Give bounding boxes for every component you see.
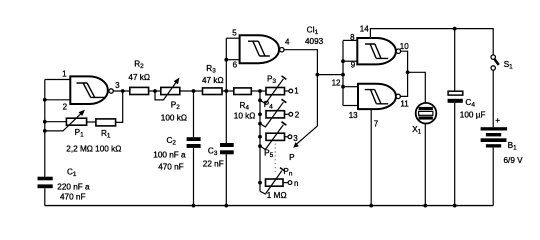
svg-text:4093: 4093: [305, 37, 324, 46]
wire pin14 stub and top rail: [370, 29, 493, 55]
label R3: [206, 64, 216, 75]
node X1 ground junction: [423, 204, 427, 208]
node P5 wiper junction: [258, 144, 262, 148]
output bubble gate CI1c: [396, 49, 400, 53]
wire pin6: [226, 59, 239, 61]
svg-text:P: P: [289, 153, 295, 162]
label B1: [508, 141, 517, 152]
wire pin4 output to node 12: [284, 50, 317, 126]
svg-text:R4: R4: [240, 101, 250, 112]
potentiometer P3: [260, 76, 289, 104]
svg-text:C3: C3: [208, 146, 218, 157]
value 47k R2: [128, 73, 150, 82]
svg-text:P4: P4: [264, 100, 273, 111]
value C2 line1: [153, 150, 186, 159]
svg-text:S1: S1: [504, 60, 513, 71]
svg-text:470 nF: 470 nF: [158, 163, 184, 172]
value 2,2M 100k: [66, 145, 121, 154]
wire C4 branch: [454, 29, 456, 206]
svg-text:C1: C1: [67, 168, 77, 179]
svg-text:R1: R1: [101, 129, 111, 140]
resistor R2: [130, 87, 161, 94]
label CI1: [307, 26, 319, 36]
node R3-R4 junction: [224, 89, 228, 93]
pin number 9: [351, 61, 356, 70]
node Pn left junction: [258, 181, 262, 185]
svg-text:3: 3: [115, 81, 120, 90]
pin number 1: [62, 70, 67, 79]
svg-text:6: 6: [233, 61, 238, 70]
pin number 6: [233, 61, 238, 70]
svg-text:3: 3: [293, 134, 298, 143]
wire pin12: [343, 86, 358, 88]
node pin3 junction: [121, 89, 125, 93]
svg-text:7: 7: [374, 119, 379, 128]
label C4: [465, 98, 475, 109]
svg-text:10 kΩ: 10 kΩ: [234, 112, 256, 121]
battery B1: [481, 127, 508, 147]
value 47k R3: [202, 76, 224, 85]
output digit 2: [295, 111, 300, 120]
svg-text:2: 2: [295, 111, 300, 120]
pin number 5: [232, 28, 237, 37]
wire pin13: [343, 105, 358, 107]
node C3 ground junction: [224, 204, 228, 208]
svg-text:13: 13: [349, 111, 358, 120]
node pin12 junction: [341, 85, 345, 89]
wire to transducer X1: [408, 72, 426, 205]
potentiometer P4: [260, 99, 289, 127]
NAND gate CI1d pins 12,13,11: [358, 84, 396, 109]
svg-text:1: 1: [294, 87, 299, 96]
svg-text:CI1: CI1: [307, 26, 319, 36]
wire battery to ground rail: [492, 148, 494, 206]
svg-text:B1: B1: [508, 141, 517, 152]
node pin9 junction: [341, 59, 345, 63]
output bubble gate CI1b: [280, 48, 284, 52]
node R2-P2 junction: [153, 89, 157, 93]
label P2: [171, 100, 180, 111]
svg-text:2: 2: [63, 102, 68, 111]
value 4093: [305, 37, 324, 46]
svg-text:5: 5: [232, 28, 237, 37]
switch S1: [491, 55, 499, 70]
label R4: [240, 101, 250, 112]
potentiometer P1: [45, 110, 87, 131]
svg-text:10: 10: [400, 42, 409, 51]
svg-text:2,2 MΩ 100 kΩ: 2,2 MΩ 100 kΩ: [66, 145, 121, 154]
output digit 3: [293, 134, 298, 143]
label R1: [101, 129, 111, 140]
wire C2 branch: [193, 91, 195, 206]
label P5: [264, 149, 273, 160]
wire pin9: [343, 60, 357, 62]
svg-text:C4: C4: [465, 98, 475, 109]
svg-text:22 nF: 22 nF: [203, 159, 224, 168]
node P1 wiper junction: [43, 129, 47, 133]
output letter n: [294, 179, 298, 188]
node P4 wiper junction: [258, 122, 262, 126]
terminal circle output 2: [289, 112, 293, 116]
node P4 left junction: [258, 112, 262, 116]
capacitor C1: [38, 177, 53, 189]
pin number 8: [350, 33, 355, 42]
node pin6 junction: [224, 58, 228, 62]
svg-text:Pn: Pn: [283, 167, 292, 178]
pin number 4: [285, 38, 290, 47]
svg-text:X1: X1: [412, 125, 421, 136]
wire potentiometer bus: [259, 91, 261, 191]
label S1: [504, 60, 513, 71]
node pin2 junction: [43, 98, 47, 102]
svg-text:11: 11: [400, 99, 409, 108]
svg-text:47 kΩ: 47 kΩ: [128, 73, 150, 82]
svg-text:P2: P2: [171, 100, 180, 111]
value C4: [460, 110, 486, 119]
node link right junction: [341, 73, 345, 77]
resistor R3: [203, 88, 234, 95]
capacitor C4 electrolytic: [448, 91, 463, 103]
label X1: [412, 125, 421, 136]
node C2 ground junction: [192, 204, 196, 208]
label P1: [75, 128, 84, 139]
node C4 top rail junction: [453, 27, 457, 31]
value C1 line2: [60, 193, 86, 202]
output digit 1: [294, 87, 299, 96]
svg-text:14: 14: [360, 24, 369, 33]
NAND gate CI1c pins 8,9,10: [357, 38, 396, 64]
terminal circle output 3: [288, 135, 292, 139]
potentiometer P2: [155, 78, 203, 100]
output bubble gate CI1a: [109, 89, 113, 93]
svg-text:12: 12: [332, 78, 341, 87]
capacitor C2: [187, 137, 201, 148]
svg-text:1 MΩ: 1 MΩ: [267, 191, 287, 200]
resistor R4: [234, 88, 266, 95]
value C3: [203, 159, 224, 168]
plus sign battery: [495, 116, 500, 125]
label C1: [67, 168, 77, 179]
wire pin5: [226, 37, 239, 39]
value 10k R4: [234, 112, 256, 121]
label C2: [167, 136, 177, 147]
output bubble gate CI1d: [396, 94, 400, 98]
wire outputs 10 and 11 join: [400, 51, 407, 96]
pin number 11: [400, 99, 409, 108]
node P5 left junction: [258, 135, 262, 139]
value B1: [504, 156, 524, 165]
svg-text:100 kΩ: 100 kΩ: [161, 114, 187, 123]
svg-text:9: 9: [351, 61, 356, 70]
svg-text:P3: P3: [267, 75, 276, 86]
pin number 12: [332, 78, 341, 87]
node pin7 ground junction: [369, 204, 373, 208]
node P3 wiper junction: [258, 98, 262, 102]
svg-text:R2: R2: [134, 60, 144, 71]
svg-text:470 nF: 470 nF: [60, 193, 86, 202]
svg-text:6/9 V: 6/9 V: [504, 156, 524, 165]
resistor R1: [87, 91, 123, 126]
dotted continuation line: [274, 144, 276, 173]
label P3: [267, 75, 276, 86]
pin number 14: [360, 24, 369, 33]
wire left vertical rail: [44, 80, 46, 206]
svg-text:8: 8: [350, 33, 355, 42]
value 1M pots: [267, 191, 287, 200]
node C4 ground junction: [453, 204, 457, 208]
pin number 13: [349, 111, 358, 120]
wire gate1 input pin1: [45, 79, 71, 81]
wire gate1 input pin2: [45, 99, 71, 101]
wire switch to battery: [492, 70, 494, 127]
value 100k P2: [161, 114, 187, 123]
svg-text:+: +: [495, 116, 500, 125]
pin number 10: [400, 42, 409, 51]
label Pn: [283, 167, 292, 178]
pin number 2: [63, 102, 68, 111]
label P4: [264, 100, 273, 111]
value C1 line1: [57, 182, 90, 191]
NAND gate CI1a pins 1,2,3: [70, 76, 108, 104]
svg-text:C2: C2: [167, 136, 177, 147]
node link left junction: [316, 73, 320, 77]
svg-text:100 µF: 100 µF: [460, 110, 486, 119]
transducer X1: [416, 103, 437, 124]
svg-text:n: n: [294, 179, 298, 188]
value C2 line2: [158, 163, 184, 172]
pin number 3: [115, 81, 120, 90]
svg-text:P1: P1: [75, 128, 84, 139]
wire ground rail: [45, 205, 493, 207]
pin number 7: [374, 119, 379, 128]
node outputs junction: [406, 70, 410, 74]
label R2: [134, 60, 144, 71]
selector arrow P wire: [293, 126, 317, 148]
node P1 left junction: [43, 120, 47, 124]
node R4-P3 junction: [258, 89, 262, 93]
label C3: [208, 146, 218, 157]
label P selector: [289, 153, 295, 162]
svg-text:P5: P5: [264, 149, 273, 160]
wire gates CI1c CI1d input vertical: [342, 40, 344, 105]
wire pin7 stub: [370, 109, 372, 206]
wire node12 horizontal link: [317, 74, 343, 76]
wire gate CI1b input vertical: [225, 38, 227, 205]
potentiometer P5: [260, 122, 288, 150]
terminal circle output 1: [289, 89, 293, 93]
svg-text:100 nF a: 100 nF a: [153, 150, 186, 159]
svg-text:R3: R3: [206, 64, 216, 75]
wire pin8: [343, 39, 357, 41]
svg-text:47 kΩ: 47 kΩ: [202, 76, 224, 85]
svg-text:1: 1: [62, 70, 67, 79]
NAND gate CI1b pins 5,6,4: [240, 35, 280, 63]
svg-text:4: 4: [285, 38, 290, 47]
svg-text:220 nF a: 220 nF a: [57, 182, 90, 191]
wire pin3 output: [113, 90, 130, 92]
capacitor C3: [220, 143, 234, 154]
terminal circle output n: [288, 181, 292, 185]
node C2 branch junction: [192, 89, 196, 93]
potentiometer Pn: [260, 168, 288, 194]
